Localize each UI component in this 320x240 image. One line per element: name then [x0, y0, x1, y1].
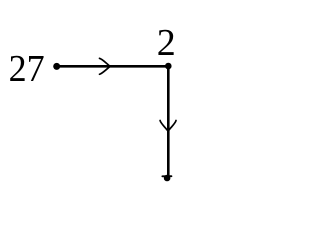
- wire vertical edge: [167, 66, 170, 177]
- arrow barbs at end node: [162, 175, 171, 177]
- node start dot: [53, 63, 60, 70]
- node end dot: [164, 175, 171, 182]
- wire horizontal edge: [57, 65, 169, 68]
- svg-text:27: 27: [9, 48, 45, 90]
- svg-text:2: 2: [157, 22, 176, 64]
- arrow down chevron on vertical edge: [160, 121, 176, 132]
- node corner dot labelled 2: [165, 63, 172, 70]
- arrow right chevron on horizontal edge: [100, 58, 111, 74]
